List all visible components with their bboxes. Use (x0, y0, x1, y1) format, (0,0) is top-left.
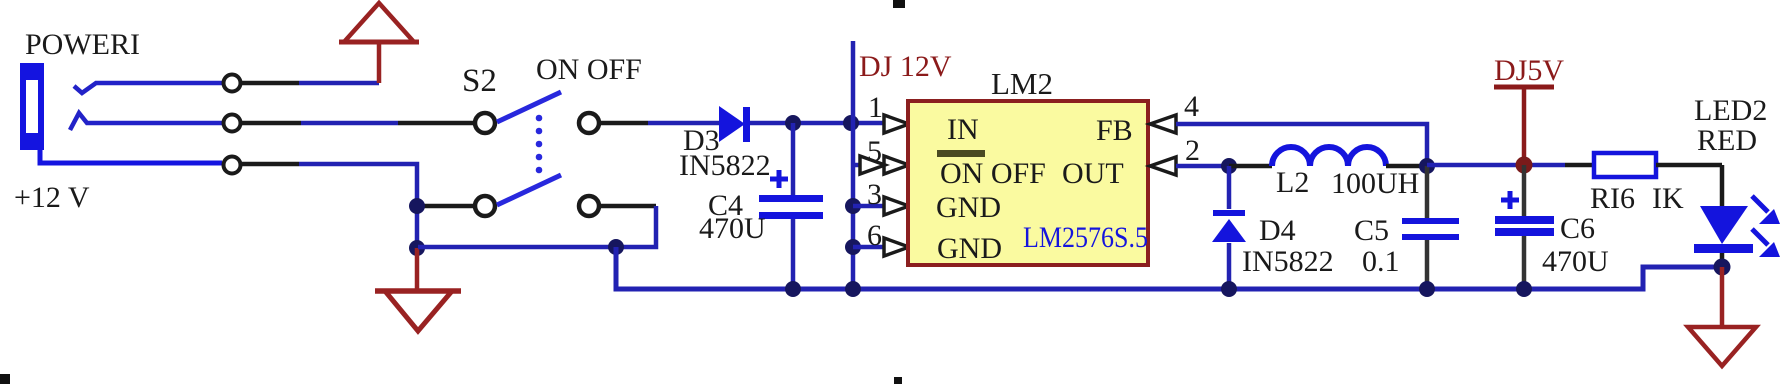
svg-text:FB: FB (1096, 114, 1133, 147)
svg-text:GND: GND (937, 232, 1002, 265)
svg-text:2: 2 (1185, 134, 1200, 167)
svg-text:RI6: RI6 (1590, 182, 1635, 215)
svg-text:GND: GND (936, 191, 1001, 224)
svg-text:LED2: LED2 (1694, 94, 1767, 127)
svg-text:ON OFF: ON OFF (536, 53, 642, 86)
svg-text:470U: 470U (1542, 245, 1609, 278)
svg-text:IN5822: IN5822 (1242, 245, 1334, 278)
svg-text:IN5822: IN5822 (679, 149, 771, 182)
svg-text:L2: L2 (1276, 166, 1309, 199)
svg-text:DJ5V: DJ5V (1494, 54, 1564, 87)
svg-text:100UH: 100UH (1331, 167, 1419, 200)
svg-text:RED: RED (1697, 124, 1757, 157)
svg-text:5: 5 (867, 135, 882, 168)
svg-text:LM2: LM2 (991, 66, 1053, 101)
svg-text:S2: S2 (462, 63, 497, 99)
svg-text:0.1: 0.1 (1362, 245, 1400, 278)
svg-text:ON OFF: ON OFF (940, 157, 1046, 190)
svg-text:1: 1 (868, 91, 883, 124)
svg-text:DJ 12V: DJ 12V (859, 50, 952, 83)
svg-text:D4: D4 (1259, 214, 1296, 247)
svg-text:IN: IN (947, 113, 979, 146)
svg-text:C6: C6 (1560, 212, 1595, 245)
svg-text:+12 V: +12 V (14, 181, 90, 214)
svg-text:IK: IK (1652, 182, 1684, 215)
svg-text:3: 3 (867, 178, 882, 211)
svg-text:4: 4 (1184, 90, 1199, 123)
svg-text:6: 6 (867, 219, 882, 252)
svg-text:470U: 470U (699, 212, 766, 245)
svg-text:OUT: OUT (1062, 157, 1124, 190)
svg-text:POWERI: POWERI (25, 28, 140, 61)
svg-text:LM2576S.5: LM2576S.5 (1023, 221, 1148, 254)
svg-text:C5: C5 (1354, 214, 1389, 247)
